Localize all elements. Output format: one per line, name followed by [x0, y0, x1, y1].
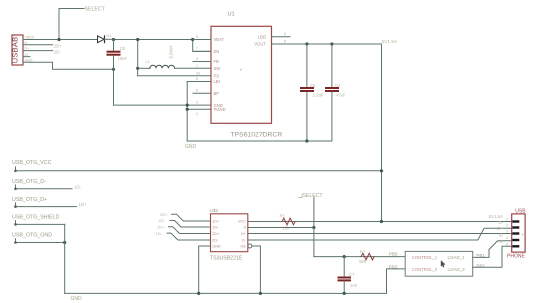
junction C4 top [330, 42, 333, 45]
wire USB_OTG_GND row [16, 242, 65, 244]
svg-text:SELECT: SELECT [85, 7, 106, 13]
pad pin 4 [512, 239, 519, 241]
svg-text:LBO: LBO [258, 34, 267, 39]
svg-text:GND: GND [71, 296, 83, 302]
wire GND row from C5 [114, 104, 212, 106]
junction EN tap on rail [191, 38, 194, 41]
svg-text:10k: 10k [283, 226, 291, 231]
svg-text:TS3USB221E: TS3USB221E [210, 255, 243, 261]
wire USB_OTG_D+ stub [16, 206, 77, 208]
svg-text:2: 2 [196, 112, 198, 116]
svg-text:1D-: 1D- [156, 231, 163, 236]
wire 1D+ to U2 [169, 227, 211, 234]
capacitor C7 [339, 257, 351, 294]
wire bottom ground rail [65, 292, 387, 294]
svg-text:10uF: 10uF [118, 56, 128, 61]
svg-text:GND: GND [185, 144, 197, 150]
wire D- stub of USBAB [23, 44, 53, 46]
pin VOUT [254, 40, 286, 47]
svg-text:A0: A0 [498, 239, 504, 244]
junction U2 GND on rail [197, 292, 200, 295]
svg-text:+: + [240, 68, 243, 73]
wire 5V drop to lower section [381, 44, 383, 222]
wire GND rail under U1 [187, 140, 332, 142]
pin OE inversion circle [248, 244, 252, 248]
relay module K1 control box [405, 251, 473, 276]
svg-text:8: 8 [284, 40, 286, 44]
svg-text:L1: L1 [146, 59, 151, 64]
svg-text:R1: R1 [280, 213, 286, 218]
wire PS row [138, 75, 211, 77]
svg-text:USBAB: USBAB [11, 37, 20, 64]
svg-text:CONTROL_2: CONTROL_2 [412, 267, 438, 272]
svg-text:1nF: 1nF [350, 283, 358, 288]
wire SELECT vertical [313, 197, 315, 256]
wire PB3 from ground rail [387, 269, 406, 294]
svg-text:PHONE: PHONE [507, 254, 525, 260]
svg-text:SELECT: SELECT [303, 193, 324, 199]
wire D+ row C to USB pin3 [248, 233, 512, 235]
pin LBI [196, 77, 220, 84]
svg-text:C7: C7 [349, 272, 355, 277]
wire 1D- to U2 [167, 233, 211, 240]
svg-text:2.2uF: 2.2uF [313, 92, 324, 97]
wire USBAB GND down-step to C5 node [23, 62, 114, 69]
net label USB_OTG_D+ [12, 197, 47, 208]
svg-text:4: 4 [196, 57, 198, 61]
net label USB_OTG_VCC [12, 160, 52, 172]
svg-text:EN: EN [214, 49, 220, 54]
svg-text:47uF: 47uF [336, 92, 346, 97]
wire inductor to SW [175, 67, 211, 69]
wire VBUS rail diode to VBAT [114, 39, 212, 41]
wire S row B to USB pin2 [248, 227, 314, 229]
svg-text:3: 3 [506, 230, 508, 234]
net label USB_OTG_D- [12, 179, 46, 190]
wire LOAD_1 to USB pin4 [473, 241, 512, 258]
pad pin 1 [512, 220, 519, 222]
junction shield/gnd [63, 241, 66, 244]
svg-text:1: 1 [506, 218, 508, 222]
junction 5V drop on row A [380, 220, 383, 223]
wire 2D- to U2 [170, 221, 211, 228]
wire USB_OTG_VCC row [16, 170, 382, 172]
svg-text:D+: D+ [497, 226, 503, 231]
wire inductor left lead [138, 67, 150, 69]
junction at C5 bottom node [112, 68, 115, 71]
svg-text:U$2: U$2 [210, 208, 219, 214]
pin FB [193, 57, 219, 64]
svg-text:2D+: 2D+ [54, 44, 62, 49]
svg-text:1: 1 [196, 64, 198, 68]
connector X1 USBAB [11, 35, 24, 65]
pin PGND [196, 107, 226, 116]
junction C7 on rail [343, 292, 346, 295]
pin EN [193, 47, 219, 54]
svg-text:VOUT: VOUT [254, 42, 266, 47]
svg-text:VBAT: VBAT [214, 37, 225, 42]
svg-text:2D-: 2D- [159, 218, 166, 223]
pad pin 2 [512, 226, 519, 228]
pin SW [196, 64, 220, 71]
wire USB_OTG_D- stub [16, 188, 73, 190]
net label USB_OTG_SHIELD [12, 215, 60, 226]
wire USB_OTG_SHIELD row [16, 223, 65, 225]
svg-text:6: 6 [284, 32, 286, 36]
svg-text:2: 2 [506, 224, 508, 228]
junction OE on rail [259, 292, 262, 295]
capacitor C5 [108, 40, 120, 106]
svg-text:3: 3 [196, 101, 198, 105]
junction 5V drop on VCC row [380, 169, 383, 172]
svg-text:2D-: 2D- [54, 50, 61, 55]
svg-text:1D+: 1D+ [212, 220, 220, 224]
svg-text:PGND: PGND [214, 107, 226, 112]
svg-text:LOAD_1: LOAD_1 [448, 255, 466, 260]
svg-text:PS: PS [214, 74, 220, 79]
svg-text:2D+: 2D+ [212, 232, 220, 236]
wire D- row D to USB pin2 via diagonal [248, 228, 512, 240]
inductor L1 [150, 65, 175, 68]
svg-text:CONTROL_1: CONTROL_1 [412, 255, 438, 260]
wire 2D+ to U2 [172, 214, 211, 221]
svg-text:9: 9 [196, 35, 198, 39]
wire ID stub of USBAB [23, 56, 30, 58]
wire VBAT branch down to inductor and PS [137, 40, 139, 76]
svg-text:USB_OTG_SHIELD: USB_OTG_SHIELD [12, 215, 60, 221]
wire VOUT rail [272, 43, 382, 45]
svg-text:5V1.5A: 5V1.5A [382, 39, 399, 45]
junction C5 top tap [112, 38, 115, 41]
svg-text:LOAD_2: LOAD_2 [448, 267, 466, 272]
capacitor C6 [301, 44, 313, 141]
pin VBAT [193, 35, 225, 42]
wire D+ stub of USBAB [23, 50, 53, 52]
op-amp U1 TPS61027DRCR [211, 26, 272, 123]
svg-text:USB_OTG_D+: USB_OTG_D+ [12, 197, 47, 203]
svg-text:5: 5 [506, 242, 508, 246]
svg-text:1D+: 1D+ [79, 202, 88, 207]
svg-text:GND: GND [212, 245, 221, 249]
svg-text:7: 7 [196, 47, 198, 51]
svg-text:FB: FB [214, 59, 220, 64]
svg-text:5k6: 5k6 [359, 259, 367, 264]
connector USB PHONE [512, 214, 525, 252]
capacitor C4 [326, 44, 338, 141]
svg-text:2D-: 2D- [212, 239, 219, 243]
junction C7 tap [343, 255, 346, 258]
svg-text:USB_OTG_GND: USB_OTG_GND [12, 232, 52, 238]
svg-text:6.8mH: 6.8mH [169, 46, 174, 59]
junction at inductor left [136, 67, 139, 70]
junction SELECT tap on VBUS rail [57, 38, 60, 41]
junction C6 bottom [305, 139, 308, 142]
svg-text:10: 10 [196, 71, 200, 75]
net label USB_OTG_GND [12, 232, 52, 243]
mouse cursor [441, 261, 445, 267]
svg-text:5: 5 [196, 77, 198, 81]
pin PS [196, 71, 219, 78]
svg-text:D-: D- [498, 220, 503, 225]
svg-text:BP: BP [214, 91, 220, 96]
pin LBO [258, 32, 290, 39]
svg-text:TPS61027DRCR: TPS61027DRCR [231, 131, 283, 138]
junction PGND row [186, 108, 189, 111]
svg-text:SW: SW [214, 66, 221, 71]
svg-text:R2: R2 [360, 249, 366, 254]
wire U2 GND loop [199, 246, 211, 293]
svg-text:USB_OTG_VCC: USB_OTG_VCC [12, 160, 52, 166]
wire VBUS rail from USBAB to diode [23, 39, 97, 41]
wire SELECT to R2 to control box [314, 256, 405, 258]
wire LBI-GND-PGND vertical [186, 82, 188, 142]
pad pin 5 [512, 245, 519, 247]
wire VCC row A to USB pin1 [248, 221, 512, 223]
resistor R2 [361, 253, 374, 260]
pin BP [193, 89, 219, 96]
junction SELECT on row B [312, 226, 315, 229]
svg-text:1D-: 1D- [74, 184, 82, 189]
svg-text:8: 8 [196, 89, 198, 93]
svg-text:4: 4 [506, 236, 508, 240]
pin GND [196, 101, 223, 108]
IC U2 TS3USB221E [211, 214, 248, 252]
svg-text:5V1.5A: 5V1.5A [489, 214, 503, 219]
svg-text:U1: U1 [228, 12, 235, 18]
diode D1 [98, 36, 114, 43]
svg-text:D1: D1 [107, 33, 113, 38]
svg-text:ID: ID [499, 233, 503, 238]
wire EN branch [193, 40, 211, 52]
svg-text:VCC: VCC [238, 220, 246, 224]
resistor R1 [282, 218, 295, 225]
wire LBI row [187, 81, 211, 83]
svg-text:OE: OE [241, 245, 247, 249]
wire PGND row [187, 108, 211, 110]
svg-text:C4: C4 [335, 83, 341, 88]
svg-text:C6: C6 [310, 83, 316, 88]
wire left ground vertical [64, 224, 66, 293]
wire to SELECT (top) [59, 9, 84, 40]
svg-text:USB_OTG_D-: USB_OTG_D- [12, 179, 46, 185]
svg-text:C5: C5 [120, 46, 126, 51]
svg-text:USB: USB [515, 209, 526, 215]
svg-text:1D-: 1D- [212, 226, 219, 230]
pad pin 3 [512, 232, 519, 234]
junction C6 top [305, 42, 308, 45]
svg-text:PB0: PB0 [389, 252, 398, 257]
junction GND row [186, 104, 189, 107]
wire OE to ground rail [252, 246, 261, 293]
junction inductor tap on rail [136, 38, 139, 41]
svg-text:LBI: LBI [214, 79, 220, 84]
net label SELECT (bottom) [299, 193, 324, 199]
svg-text:1D+: 1D+ [157, 225, 165, 230]
svg-text:2D+: 2D+ [160, 212, 168, 217]
svg-text:D+: D+ [241, 232, 247, 236]
wire LOAD_2 to USB pin5 [473, 246, 512, 267]
